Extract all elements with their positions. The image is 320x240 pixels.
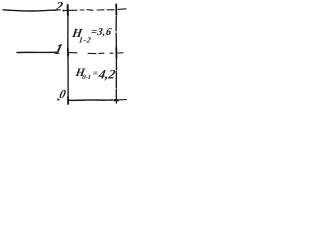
svg-text:0-1: 0-1 (82, 74, 92, 81)
node tick: right vertical at level 2 (115, 5, 117, 16)
svg-text:0: 0 (58, 87, 67, 101)
node blob: bottom right corner (115, 99, 119, 101)
wire: ground line 0 solid segment (68, 99, 112, 101)
svg-text:4,2: 4,2 (97, 66, 117, 81)
svg-text:1: 1 (53, 41, 65, 58)
wire: ground line 0 right dash (120, 99, 127, 101)
wire: level line 1 left dashed segment (17, 51, 57, 53)
wire: level line 2 left dashed segment (3, 10, 56, 11)
comma after 0 (57, 98, 60, 101)
wire: right vertical staff line (115, 4, 117, 103)
comma after 2 (63, 9, 66, 12)
node tick: left vertical at level 2 (67, 6, 69, 16)
wire: level line 1 right dashed segment (69, 53, 123, 54)
node tick: right vertical at level 1 (115, 48, 117, 58)
svg-text:=3,6: =3,6 (90, 27, 113, 38)
svg-text:2: 2 (54, 0, 65, 14)
node tick: left vertical at level 0 (67, 97, 69, 104)
wire: left vertical staff line (67, 5, 69, 104)
node tick: left vertical at level 1 (67, 48, 69, 56)
wire: level line 2 right dashed segment (63, 9, 126, 11)
